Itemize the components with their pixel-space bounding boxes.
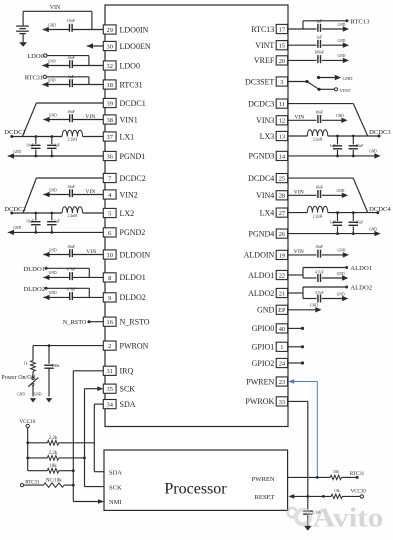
node LX2/cap junctions [34,212,53,215]
svg-text:DLDO1: DLDO1 [120,273,146,282]
capacitor 10uF (VIN2) [67,185,75,197]
pin 1 GPIO1 (right) [252,342,288,351]
svg-text:PWRON: PWRON [120,341,149,350]
net label DLDO1 [23,266,47,273]
node RESET junctions [306,495,324,498]
net label DLDO2 [23,286,47,293]
svg-text:36: 36 [107,153,113,160]
svg-text:DCDC1: DCDC1 [120,99,146,108]
node LX3/cap junctions [336,135,355,138]
wire DCDC2 pin row [36,177,103,179]
svg-text:LDO0EN: LDO0EN [120,42,151,51]
inductor 2.2uH (LX4) [307,206,328,218]
pin 10 DLDOIN (left) [103,250,150,259]
wire VIN rail [23,10,92,12]
svg-text:1k: 1k [24,362,28,366]
svg-text:1uF: 1uF [330,144,336,148]
svg-text:LX2: LX2 [120,209,135,218]
ground (RTC31 row, arrow left) [42,78,56,87]
svg-text:DCDC4: DCDC4 [369,206,391,213]
svg-text:4.7uF: 4.7uF [315,271,324,275]
svg-text:VIN: VIN [50,5,61,11]
svg-text:GND: GND [17,392,25,396]
svg-text:1uF: 1uF [68,75,74,79]
wire LDO0IN row [43,29,104,31]
svg-text:39: 39 [107,100,113,107]
pin 18 RTC31 (left) [103,80,142,89]
svg-text:GND: GND [338,249,346,253]
capacitor 1uF (DCDC3 out a) [330,136,343,156]
svg-text:GND: GND [34,392,42,396]
svg-text:GND: GND [310,304,318,308]
pin 21 ALDO2 (right) [248,288,288,297]
pin 15 VINT (right) [255,41,287,50]
svg-text:Power On/Off: Power On/Off [1,374,35,381]
pin 26 PGND4 (right) [249,229,288,238]
svg-text:4.7uF: 4.7uF [67,288,76,292]
pin 22 ALDO1 (right) [248,270,288,279]
capacitor 10uF (VIN4) [315,186,323,198]
processor pin NMI [109,499,122,506]
wire LX3 row [288,135,379,137]
capacitor 10uF (DCDC1 out a) [26,137,41,157]
svg-text:DCDC2: DCDC2 [4,206,26,213]
wire PGND1 row [8,155,104,157]
wire SDA net [94,404,104,472]
svg-text:16: 16 [107,319,113,326]
svg-text:GND: GND [369,227,377,231]
net label ALDO1 [345,265,372,272]
capacitor 10uF (DCDC4 out b) [349,213,364,234]
svg-text:1uF: 1uF [54,143,60,147]
svg-text:GND: GND [337,292,345,296]
svg-text:33: 33 [279,399,285,406]
svg-text:35: 35 [107,386,113,393]
svg-text:32: 32 [107,63,113,70]
svg-text:ALDO2: ALDO2 [350,285,372,292]
capacitor 1uF (DCDC1 out b) [47,137,60,157]
ground (VIN1 row, arrow left) [43,113,57,122]
svg-text:27: 27 [279,210,286,217]
svg-text:GND: GND [13,226,21,230]
pin 17 RTC13 (right) [251,24,287,33]
wire DCDC4 pin row [288,177,354,179]
wire DCDC1 pin row [36,102,103,104]
svg-text:10uF: 10uF [67,185,75,189]
capacitor 10uF (VIN1) [67,110,75,122]
capacitor 1uF (RTC31) [68,75,74,87]
wire PWREN row (processor) [288,476,356,478]
processor pin SDA [109,469,122,476]
svg-text:3: 3 [280,79,283,86]
net label VIN (ALDOIN) [294,249,304,255]
svg-text:ALDO1: ALDO1 [350,265,372,272]
wire DLDO2 row [43,296,103,298]
svg-text:GND: GND [48,78,56,82]
pin 11 DCDC3 (right) [248,99,288,108]
capacitor 100n (PWRON) [44,364,59,396]
wire VIN1 row [43,119,103,121]
wire LDO0 net to row [47,56,89,66]
wire SCK pull-up row [28,457,85,459]
svg-text:VIN: VIN [294,115,304,121]
pin 40 GPIO0 (right) [252,324,288,333]
svg-text:GND: GND [257,306,275,315]
ground (battery) [19,42,27,47]
svg-text:17: 17 [279,26,286,33]
svg-text:VIN: VIN [86,249,96,255]
capacitor 0.1uF (RESET) [303,496,321,525]
svg-text:VIN2: VIN2 [120,190,138,199]
svg-text:Avito: Avito [313,503,384,533]
wire PWREN (blue) [294,382,317,478]
ground (DLDOIN row, arrow left) [43,248,57,257]
ground (PGND1, arrow left) [8,150,22,159]
svg-text:ALDOIN: ALDOIN [244,251,275,260]
svg-text:LX3: LX3 [260,132,275,141]
ground (PGND2, arrow left) [8,226,22,235]
label Power On/Off [1,374,35,381]
svg-text:2.2uH: 2.2uH [313,214,323,218]
PMIC U1 body [105,5,288,427]
wire PGND2 row [8,231,104,233]
pin 9 DLDO2 (left) [103,293,145,302]
pin 14 PGND3 (right) [249,151,288,160]
svg-text:GND: GND [338,23,346,27]
svg-text:10uF: 10uF [67,19,75,23]
svg-text:N_RSTO: N_RSTO [63,319,87,326]
wire VINT row [288,44,344,46]
svg-text:RTC31: RTC31 [25,74,43,81]
svg-text:RTC31: RTC31 [350,472,365,477]
wire DLDO1 net to row [46,268,89,277]
svg-text:GPIO0: GPIO0 [252,324,275,333]
svg-text:LDO0: LDO0 [27,53,44,60]
wire VIN drop to LDO0IN [91,11,93,29]
wire LX2 row [12,212,104,214]
svg-text:SDA: SDA [109,469,122,476]
wire DLDO1 row [43,276,103,278]
ground (VIN3 row, arrow right) [336,114,348,123]
node PGND3 junctions [336,155,355,158]
svg-text:GND: GND [49,248,57,252]
svg-text:NC/10k: NC/10k [46,479,62,484]
ground (switch) [17,392,36,402]
svg-text:9: 9 [108,295,111,302]
ground (ALDO2, arrow right) [337,292,349,301]
node PGND1 junctions [34,155,53,158]
svg-text:10uF: 10uF [26,220,34,224]
net label VIN (DLDOIN row) [86,249,96,255]
wire LX1 row [12,136,104,138]
capacitor 10uF (LDO0) [67,56,75,68]
wire PWRON left branch [32,346,34,361]
ground (DLDO2 row, arrow left) [43,291,57,300]
svg-text:VIN: VIN [294,249,304,255]
svg-text:PWREN: PWREN [252,476,275,483]
arrow into PWREN pin 23 (blue) [288,379,294,384]
ground (PWRON cap) [34,392,52,402]
svg-text:22: 22 [279,272,285,279]
svg-text:10uF: 10uF [356,144,364,148]
svg-text:2.2k: 2.2k [49,436,58,441]
net label RTC31 (NMI alt pull-up) [20,480,40,486]
svg-text:DCDC4: DCDC4 [248,174,274,183]
svg-text:PGND1: PGND1 [120,152,146,161]
arrow into RESET (processor) [288,494,294,499]
wire DCDC3 feedback diagonal [353,104,367,136]
svg-text:10uF: 10uF [67,245,75,249]
wire DC3SET VINT option [319,88,334,90]
svg-text:EP: EP [278,307,286,314]
svg-text:15: 15 [279,43,285,50]
switch DC3SET select (lever) [307,82,319,90]
ground (PGND4, arrow right) [369,227,381,236]
wire VIN2 row [43,194,103,196]
svg-text:2: 2 [108,343,111,350]
resistor 10k (NMI pull-up) [47,464,58,473]
net label RTC31 [25,74,47,81]
capacitor 1uF (DCDC4 out a) [330,213,343,234]
wire NMI pull-up row [59,470,74,472]
capacitor 1uF (VINT) [316,36,322,48]
svg-text:LDO0: LDO0 [120,61,140,70]
svg-text:IRQ: IRQ [120,367,134,376]
svg-text:18: 18 [107,82,113,89]
label Processor [164,481,227,498]
svg-text:GPIO1: GPIO1 [252,343,275,352]
capacitor 10uF (LDO0IN) [67,19,75,32]
node VCC10 branches [26,441,29,459]
svg-text:GPIO2: GPIO2 [252,359,275,368]
svg-text:1: 1 [280,344,283,351]
svg-text:SCK: SCK [120,385,136,394]
svg-text:12: 12 [279,118,285,125]
pin 20 VREF (right) [254,56,288,65]
net label DCDC1 [4,129,26,138]
wire LX4 row [288,212,378,214]
processor pin RESET [255,494,275,501]
wire RTC31 net to row [47,77,89,85]
ground (LDO0IN, arrow left) [43,23,57,32]
svg-text:GND: GND [13,150,21,154]
pin 4 VIN2 (left) [103,190,137,199]
svg-text:DLDO1: DLDO1 [23,266,45,273]
net label VCC10 [19,419,35,428]
pin 37 LX1 (left) [103,132,134,141]
capacitor 100nF (VREF) [314,51,324,63]
wire DLDOIN row [43,254,103,256]
wire DCDC1 feedback diagonal [22,103,36,137]
svg-text:11: 11 [279,101,285,108]
arrow into SCK pin 35 [97,386,103,391]
svg-text:29: 29 [107,27,113,34]
svg-text:23: 23 [279,379,285,386]
svg-text:VREF: VREF [254,56,275,65]
ground (VREF row, arrow right) [338,54,350,63]
wire VCC10 stem [28,428,48,471]
wire LDO0EN stub [87,45,104,47]
pin 13 LX3 (right) [260,131,288,140]
svg-text:10k: 10k [49,464,57,469]
svg-text:10uF: 10uF [315,245,323,249]
capacitor 10uF (DCDC2 out a) [26,213,41,232]
svg-text:VIN: VIN [294,190,304,196]
pin 24 GPIO2 (right) [252,358,288,367]
wire PGND4 row [288,233,375,235]
svg-text:DCDC3: DCDC3 [248,99,274,108]
svg-text:GND: GND [337,272,345,276]
wire PWROK [288,401,308,496]
pin 30 LDO0EN (left) [103,41,151,50]
svg-text:GND: GND [338,54,346,58]
svg-text:RTC31: RTC31 [120,80,143,89]
svg-text:VIN4: VIN4 [256,191,274,200]
wire IRQ to NMI [73,371,103,502]
svg-text:37: 37 [107,134,114,141]
svg-text:SCK: SCK [109,484,122,491]
net label VCC30 (RESET pull-up) [351,490,367,499]
wire RTC31 alt row [24,484,74,486]
resistor 2.2k (SDA pull-up) [47,436,58,445]
net label VINT (DC3SET) [334,88,350,93]
svg-text:10: 10 [107,252,113,259]
capacitor 4.7uF (ALDO2) [315,291,324,302]
svg-text:GND: GND [338,39,346,43]
svg-text:1uF: 1uF [316,20,322,24]
node PWRON/cap junction [48,344,51,347]
capacitor 10uF (DLDOIN) [67,245,75,257]
svg-text:10uF: 10uF [315,186,323,190]
svg-text:26: 26 [279,231,285,238]
svg-text:ALDO2: ALDO2 [248,289,274,298]
svg-text:20: 20 [279,58,285,65]
pin 12 VIN3 (right) [256,116,288,125]
svg-text:GND: GND [48,59,56,63]
ground (ALDO1, arrow right) [337,272,349,281]
svg-text:PGND3: PGND3 [249,152,275,161]
svg-text:VIN: VIN [85,189,95,195]
pin 8 DLDO1 (left) [103,273,145,282]
node RTC31 alt junction [72,484,75,487]
ground (ALDOIN row, arrow right) [338,249,350,258]
wire N_RSTO stub [89,321,103,323]
svg-text:DLDO2: DLDO2 [23,286,45,293]
ground (LDO0 row, arrow left) [42,59,56,68]
svg-text:PWREN: PWREN [246,377,274,386]
resistor NC/10k (RTC31 to NMI) [44,479,65,488]
wire PWRON cap branch [48,346,50,364]
ground (DC3SET option, arrow right) [335,75,353,81]
wire ALDOIN row [288,254,344,256]
svg-text:1uF: 1uF [54,220,60,224]
wire RTC31 row [42,84,103,86]
svg-text:GND: GND [49,113,57,117]
svg-text:DCDC1: DCDC1 [4,129,26,136]
svg-text:GND: GND [49,188,57,192]
svg-text:1uF: 1uF [330,220,336,224]
capacitor 10uF (ALDOIN) [315,245,323,257]
net label LDO0 [27,53,47,60]
svg-text:SDA: SDA [120,400,136,409]
svg-text:40: 40 [279,326,285,333]
ground (VIN2 row, arrow left) [43,188,57,197]
wire SDA pull-up row [28,442,95,444]
svg-text:1uF: 1uF [316,36,322,40]
wire DC3SET stub [288,81,307,83]
node LX1/cap junctions [34,135,53,138]
svg-text:14: 14 [279,153,286,160]
net label ALDO2 [345,285,372,292]
node PGND4 junctions [336,232,355,235]
wire SCK net [85,389,105,487]
svg-text:13: 13 [279,133,285,140]
svg-text:100n: 100n [52,364,60,368]
svg-text:2.2uH: 2.2uH [313,138,323,142]
node PWREN blue junction [316,476,319,479]
svg-text:GND: GND [369,150,377,154]
svg-text:GND: GND [49,291,57,295]
svg-text:GND: GND [336,114,344,118]
ground (VINT row, arrow right) [338,39,350,48]
ground (DLDO1 row, arrow left) [43,271,57,280]
node LX4/cap junctions [336,211,355,214]
capacitor 1uF (DCDC2 out b) [47,213,60,232]
resistor 10k (RESET pull-up) [331,488,342,499]
pin 3 DC3SET (right) [245,77,288,86]
svg-text:VINT: VINT [255,41,274,50]
svg-text:19: 19 [279,252,285,259]
processor pin PWREN [252,476,275,483]
ground (VIN4 row, arrow right) [337,189,349,198]
net label RTC13 [345,18,370,25]
pin 7 DCDC2 (left) [103,173,145,182]
ground (PGND3, arrow right) [369,150,381,159]
pin 29 LDO0IN (left) [103,25,148,34]
svg-text:2.2k: 2.2k [49,451,58,456]
svg-text:10uF: 10uF [26,143,34,147]
pin EP GND (right) [257,305,288,314]
wire DC3SET GND option [319,77,336,79]
svg-text:RTC13: RTC13 [251,25,274,34]
pin 27 LX4 (right) [260,208,288,217]
svg-text:2.2uH: 2.2uH [68,137,78,141]
net label VIN (top) [50,5,61,11]
pin 34 SDA (left) [103,400,135,409]
svg-text:24: 24 [279,360,286,367]
switch Power On/Off [28,371,38,396]
wire VREF row [288,59,344,61]
pin 38 VIN1 (left) [103,115,137,124]
svg-text:Processor: Processor [164,481,227,498]
watermark Avito logo circles [288,508,311,524]
node SCK pull-up junction [83,457,86,460]
svg-text:RTC13: RTC13 [350,18,370,25]
svg-text:PGND2: PGND2 [120,228,146,237]
svg-text:25: 25 [279,176,285,183]
arrow LDO0EN (open end) [87,43,93,48]
svg-text:PGND4: PGND4 [249,229,275,238]
node DC3SET upper contact [317,76,320,79]
svg-text:28: 28 [279,193,285,200]
svg-text:100nF: 100nF [314,51,324,55]
svg-text:LX4: LX4 [260,208,275,217]
ground (RESET cap) [304,526,312,531]
pin 2 PWRON (left) [103,341,148,350]
arrow into NMI [98,499,104,504]
inductor 2.2uH (LX2) [62,207,83,218]
wire GPIO1 stub [288,345,305,348]
